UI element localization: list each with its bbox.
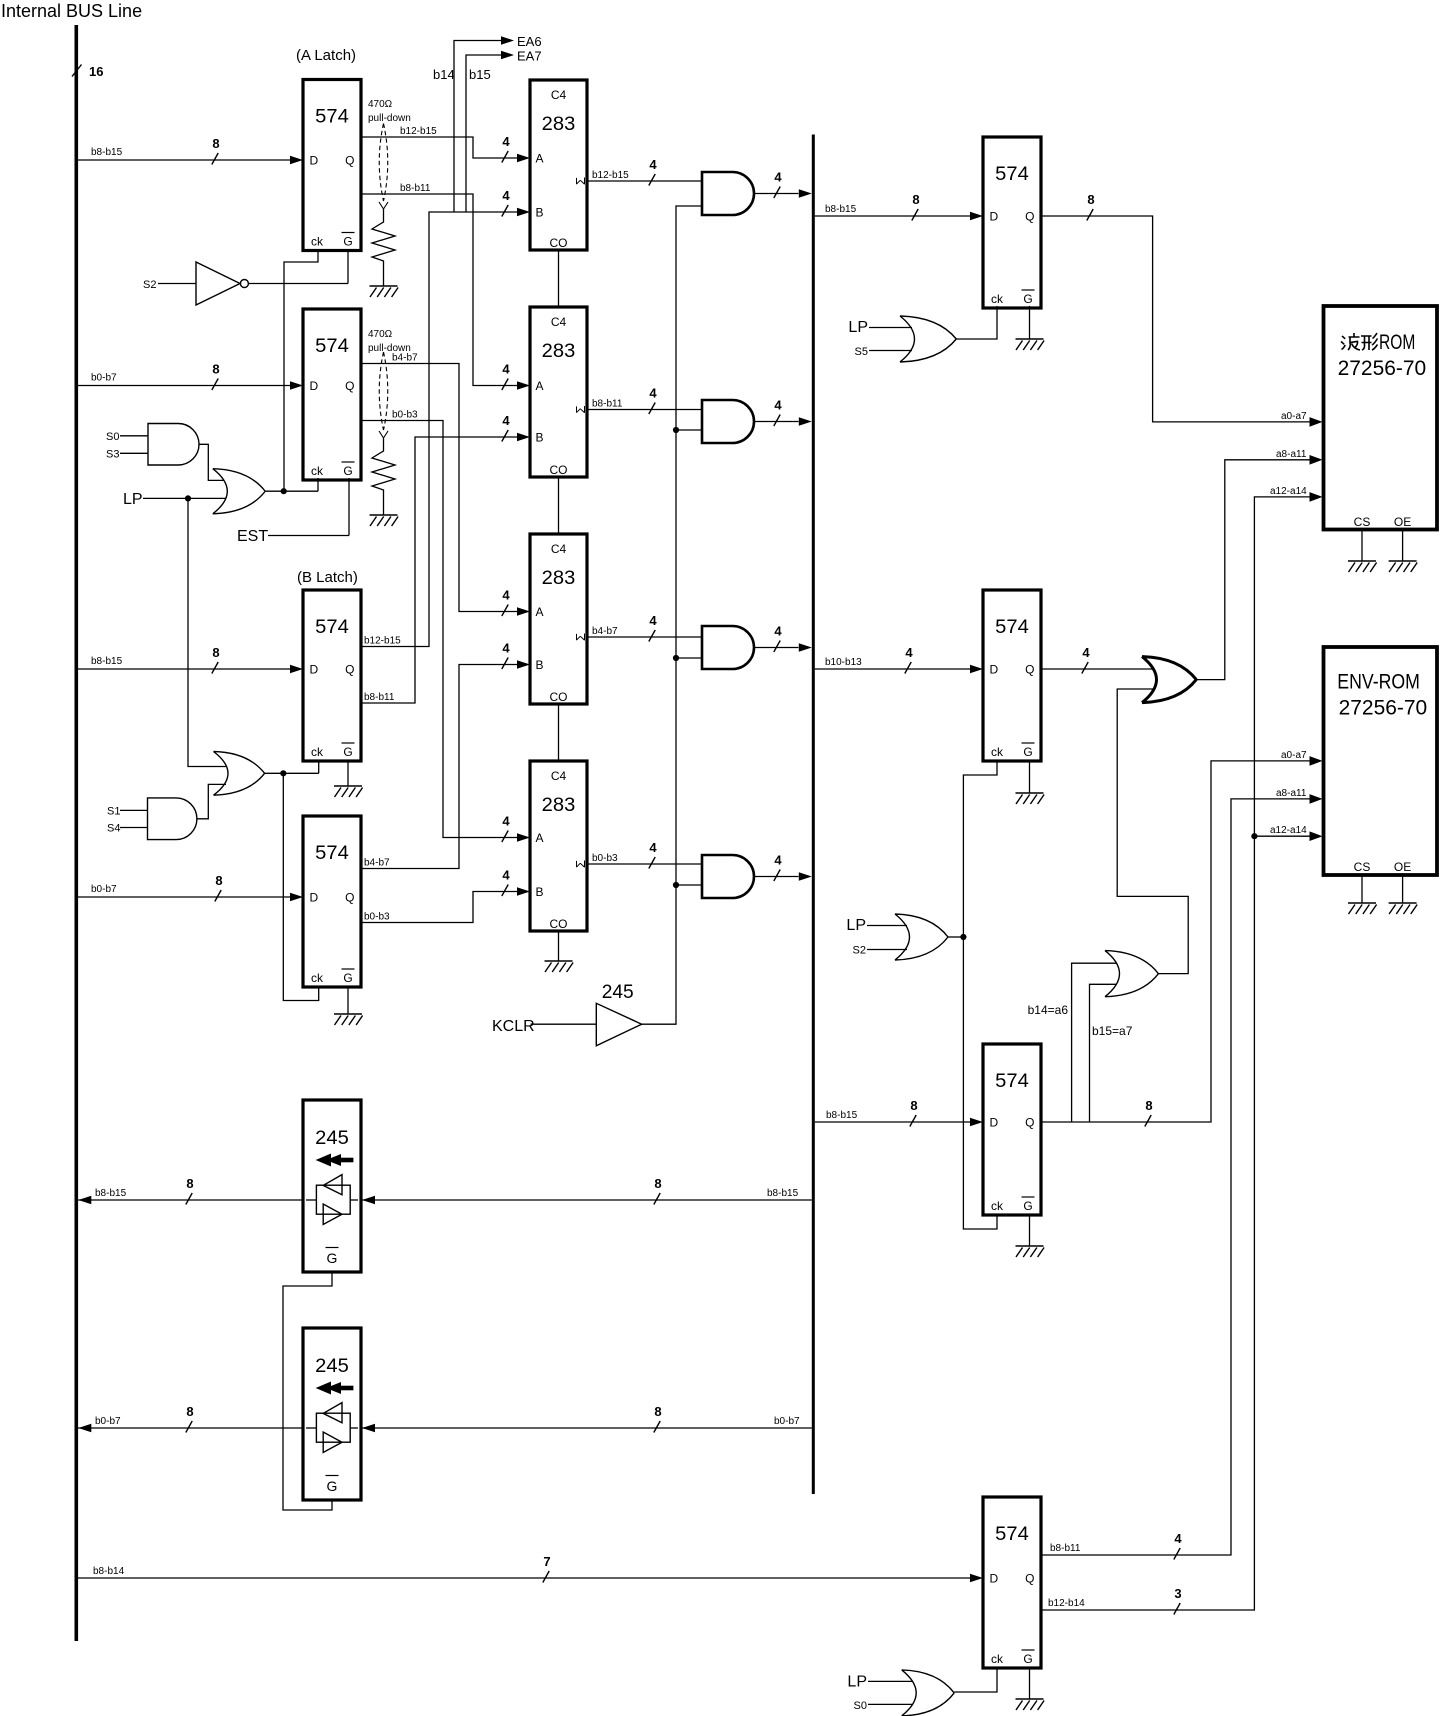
svg-text:A: A [536, 152, 544, 166]
svg-text:D: D [310, 891, 319, 905]
svg-text:KCLR: KCLR [492, 1018, 535, 1035]
svg-text:ROM: ROM [1379, 331, 1415, 354]
svg-text:8: 8 [1087, 192, 1094, 207]
svg-text:283: 283 [542, 340, 576, 362]
svg-text:27256-70: 27256-70 [1338, 357, 1427, 380]
svg-text:G: G [343, 235, 352, 249]
svg-text:b8-b15: b8-b15 [825, 204, 857, 215]
svg-text:Internal BUS Line: Internal BUS Line [1, 1, 142, 21]
svg-text:245: 245 [315, 1127, 349, 1149]
svg-text:S5: S5 [855, 346, 868, 358]
svg-text:27256-70: 27256-70 [1339, 697, 1428, 720]
svg-text:Q: Q [1025, 1572, 1034, 1586]
svg-text:S0: S0 [854, 1700, 867, 1712]
svg-text:8: 8 [212, 362, 219, 377]
svg-text:b4-b7: b4-b7 [364, 858, 390, 869]
svg-text:Q: Q [345, 891, 354, 905]
svg-text:EA6: EA6 [517, 34, 542, 49]
svg-text:C4: C4 [551, 769, 567, 783]
svg-text:283: 283 [542, 567, 576, 589]
svg-text:b0-b3: b0-b3 [364, 912, 390, 923]
svg-text:b12-b15: b12-b15 [364, 636, 401, 647]
svg-text:4: 4 [1174, 1531, 1182, 1546]
svg-text:Σ: Σ [573, 633, 588, 641]
svg-text:470Ω: 470Ω [368, 99, 393, 110]
svg-text:b4-b7: b4-b7 [592, 626, 618, 637]
svg-text:4: 4 [502, 134, 510, 149]
svg-text:G: G [1023, 1652, 1032, 1666]
svg-text:S3: S3 [106, 449, 119, 461]
svg-text:G: G [343, 464, 352, 478]
svg-text:ENV-ROM: ENV-ROM [1337, 671, 1420, 694]
svg-text:8: 8 [654, 1404, 661, 1419]
svg-text:b12-b14: b12-b14 [1048, 1598, 1085, 1609]
svg-text:b8-b11: b8-b11 [1050, 1543, 1081, 1554]
svg-text:Σ: Σ [573, 860, 588, 868]
svg-text:4: 4 [502, 362, 510, 377]
svg-text:b8-b11: b8-b11 [400, 183, 431, 194]
svg-text:4: 4 [502, 588, 510, 603]
svg-text:283: 283 [542, 794, 576, 816]
svg-text:3: 3 [1174, 1586, 1181, 1601]
svg-text:LP: LP [123, 491, 143, 508]
svg-text:D: D [990, 663, 999, 677]
svg-text:D: D [310, 379, 319, 393]
svg-text:283: 283 [542, 113, 576, 135]
svg-text:b15: b15 [469, 67, 491, 82]
svg-text:b8-b14: b8-b14 [93, 1566, 125, 1577]
svg-text:574: 574 [995, 1070, 1029, 1092]
svg-text:C4: C4 [551, 315, 567, 329]
svg-text:G: G [343, 745, 352, 759]
svg-text:Q: Q [345, 663, 354, 677]
svg-text:b10-b13: b10-b13 [825, 657, 862, 668]
svg-text:Q: Q [1025, 663, 1034, 677]
svg-text:b8-b11: b8-b11 [592, 399, 623, 410]
svg-text:ck: ck [991, 745, 1004, 759]
svg-text:D: D [310, 154, 319, 168]
svg-text:4: 4 [774, 624, 782, 639]
svg-text:Q: Q [1025, 1116, 1034, 1130]
svg-text:ck: ck [311, 235, 324, 249]
svg-text:4: 4 [774, 853, 782, 868]
svg-text:LP: LP [847, 1674, 867, 1691]
svg-text:245: 245 [602, 981, 634, 1003]
svg-text:Σ: Σ [573, 405, 588, 413]
svg-text:574: 574 [315, 335, 349, 357]
svg-text:D: D [990, 1572, 999, 1586]
svg-text:245: 245 [315, 1355, 349, 1377]
svg-text:b4-b7: b4-b7 [392, 353, 418, 364]
svg-text:ck: ck [991, 292, 1004, 306]
svg-text:B: B [536, 885, 544, 899]
svg-text:4: 4 [649, 613, 657, 628]
svg-text:(B Latch): (B Latch) [297, 569, 358, 586]
svg-text:8: 8 [186, 1404, 193, 1419]
svg-text:4: 4 [1082, 645, 1090, 660]
svg-text:4: 4 [502, 814, 510, 829]
svg-text:b0-b3: b0-b3 [592, 853, 618, 864]
svg-text:G: G [1023, 745, 1032, 759]
svg-text:8: 8 [212, 645, 219, 660]
svg-text:ck: ck [311, 464, 324, 478]
svg-text:b8-b15: b8-b15 [91, 656, 123, 667]
svg-text:A: A [536, 605, 544, 619]
svg-text:Q: Q [345, 154, 354, 168]
svg-text:ck: ck [991, 1199, 1004, 1213]
svg-text:CO: CO [550, 917, 568, 931]
svg-text:a0-a7: a0-a7 [1281, 411, 1307, 422]
svg-text:EST: EST [237, 528, 268, 545]
svg-text:7: 7 [543, 1554, 550, 1569]
svg-text:574: 574 [995, 163, 1029, 185]
svg-text:4: 4 [649, 157, 657, 172]
svg-text:B: B [536, 206, 544, 220]
svg-text:574: 574 [995, 1523, 1029, 1545]
svg-text:a8-a11: a8-a11 [1276, 788, 1307, 799]
svg-text:D: D [990, 210, 999, 224]
svg-text:574: 574 [315, 106, 349, 128]
svg-text:b14=a6: b14=a6 [1028, 1003, 1069, 1017]
svg-text:ck: ck [991, 1652, 1004, 1666]
svg-text:b15=a7: b15=a7 [1092, 1024, 1133, 1038]
svg-text:B: B [536, 658, 544, 672]
svg-text:8: 8 [912, 192, 919, 207]
svg-text:S0: S0 [106, 431, 119, 443]
svg-text:G: G [1023, 292, 1032, 306]
svg-text:8: 8 [215, 873, 222, 888]
svg-text:S2: S2 [853, 945, 866, 957]
svg-text:470Ω: 470Ω [368, 329, 393, 340]
svg-text:4: 4 [649, 386, 657, 401]
svg-text:b0-b7: b0-b7 [774, 1416, 800, 1427]
svg-text:b0-b7: b0-b7 [95, 1416, 121, 1427]
svg-text:C4: C4 [551, 88, 567, 102]
svg-text:CS: CS [1354, 860, 1371, 874]
svg-text:A: A [536, 831, 544, 845]
svg-text:OE: OE [1394, 515, 1411, 529]
svg-text:b14: b14 [433, 67, 455, 82]
svg-text:4: 4 [774, 398, 782, 413]
svg-text:4: 4 [774, 170, 782, 185]
svg-text:8: 8 [910, 1098, 917, 1113]
svg-text:a8-a11: a8-a11 [1276, 449, 1307, 460]
svg-text:4: 4 [905, 645, 913, 660]
svg-text:4: 4 [502, 413, 510, 428]
svg-text:D: D [310, 663, 319, 677]
svg-text:b12-b15: b12-b15 [592, 170, 629, 181]
svg-text:b8-b15: b8-b15 [95, 1188, 127, 1199]
svg-text:S4: S4 [107, 823, 120, 835]
svg-text:574: 574 [995, 616, 1029, 638]
svg-text:S1: S1 [107, 806, 120, 818]
svg-text:8: 8 [186, 1176, 193, 1191]
svg-text:b12-b15: b12-b15 [400, 126, 437, 137]
svg-text:G: G [1023, 1199, 1032, 1213]
svg-text:G: G [327, 1250, 338, 1266]
svg-text:CS: CS [1354, 515, 1371, 529]
svg-text:C4: C4 [551, 542, 567, 556]
svg-text:Σ: Σ [573, 177, 588, 185]
svg-text:CO: CO [550, 690, 568, 704]
svg-text:8: 8 [1145, 1098, 1152, 1113]
svg-text:Q: Q [345, 379, 354, 393]
svg-text:(A Latch): (A Latch) [296, 47, 356, 64]
svg-text:a12-a14: a12-a14 [1270, 486, 1307, 497]
svg-text:LP: LP [848, 319, 868, 336]
svg-text:b8-b15: b8-b15 [767, 1188, 799, 1199]
svg-text:8: 8 [654, 1176, 661, 1191]
svg-text:CO: CO [550, 236, 568, 250]
svg-text:4: 4 [502, 641, 510, 656]
svg-text:a0-a7: a0-a7 [1281, 750, 1307, 761]
svg-text:B: B [536, 431, 544, 445]
svg-text:b8-b15: b8-b15 [826, 1110, 858, 1121]
svg-text:ck: ck [311, 971, 324, 985]
svg-text:574: 574 [315, 616, 349, 638]
svg-text:pull-down: pull-down [368, 113, 411, 124]
svg-text:G: G [327, 1478, 338, 1494]
svg-text:D: D [990, 1116, 999, 1130]
svg-text:b0-b3: b0-b3 [392, 410, 418, 421]
svg-text:pull-down: pull-down [368, 343, 411, 354]
svg-text:4: 4 [502, 188, 510, 203]
svg-text:16: 16 [89, 64, 103, 79]
svg-text:b8-b11: b8-b11 [364, 692, 395, 703]
svg-text:a12-a14: a12-a14 [1270, 825, 1307, 836]
svg-text:EA7: EA7 [517, 49, 542, 64]
svg-text:4: 4 [649, 840, 657, 855]
svg-text:Q: Q [1025, 210, 1034, 224]
svg-text:574: 574 [315, 842, 349, 864]
svg-text:G: G [343, 971, 352, 985]
svg-text:A: A [536, 379, 544, 393]
svg-text:OE: OE [1394, 860, 1411, 874]
svg-text:ck: ck [311, 745, 324, 759]
svg-text:4: 4 [502, 868, 510, 883]
svg-text:LP: LP [846, 917, 866, 934]
svg-text:b0-b7: b0-b7 [91, 373, 117, 384]
svg-text:CO: CO [550, 463, 568, 477]
svg-text:b8-b15: b8-b15 [91, 147, 123, 158]
svg-text:8: 8 [212, 136, 219, 151]
svg-text:b0-b7: b0-b7 [91, 884, 117, 895]
svg-text:S2: S2 [143, 279, 156, 291]
